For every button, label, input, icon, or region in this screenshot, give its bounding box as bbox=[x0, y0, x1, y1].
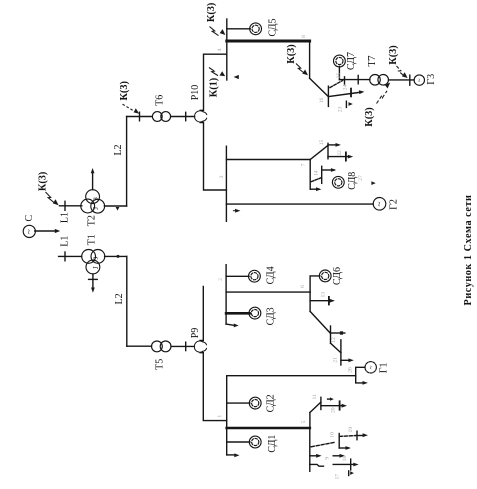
svg-text:Г2: Г2 bbox=[388, 199, 399, 210]
svg-text:18: 18 bbox=[342, 456, 348, 462]
svg-text:СД4: СД4 bbox=[266, 266, 277, 284]
svg-text:7: 7 bbox=[300, 163, 306, 166]
svg-text:2: 2 bbox=[218, 278, 224, 281]
svg-text:L2: L2 bbox=[113, 144, 124, 155]
svg-text:1: 1 bbox=[217, 415, 223, 418]
svg-text:~: ~ bbox=[416, 78, 424, 82]
svg-text:СД3: СД3 bbox=[266, 307, 277, 325]
svg-text:С: С bbox=[24, 214, 35, 221]
svg-text:25: 25 bbox=[336, 73, 342, 79]
svg-text:27: 27 bbox=[358, 175, 364, 181]
svg-text:Г3: Г3 bbox=[426, 74, 437, 85]
svg-text:14: 14 bbox=[314, 170, 320, 176]
svg-text:Т2: Т2 bbox=[87, 215, 98, 226]
svg-text:~: ~ bbox=[24, 229, 34, 234]
svg-text:СД8: СД8 bbox=[347, 172, 358, 190]
svg-text:Т7: Т7 bbox=[367, 55, 378, 66]
svg-text:23: 23 bbox=[338, 107, 344, 113]
svg-text:3: 3 bbox=[219, 175, 225, 178]
svg-text:L1: L1 bbox=[60, 236, 71, 247]
svg-text:J: J bbox=[92, 207, 100, 210]
svg-text:Т6: Т6 bbox=[155, 95, 166, 106]
svg-text:~: ~ bbox=[374, 201, 384, 206]
svg-text:Т1: Т1 bbox=[86, 234, 97, 245]
svg-text:L1: L1 bbox=[60, 212, 71, 223]
svg-text:17: 17 bbox=[335, 474, 341, 480]
svg-text:5: 5 bbox=[301, 420, 307, 423]
svg-text:21: 21 bbox=[333, 357, 339, 363]
svg-text:з: з bbox=[91, 257, 100, 260]
svg-text:К(3): К(3) bbox=[364, 107, 375, 126]
svg-text:22: 22 bbox=[337, 150, 343, 156]
svg-text:СД2: СД2 bbox=[266, 394, 277, 412]
svg-text:Рисунок 1 Схема сети: Рисунок 1 Схема сети bbox=[463, 195, 474, 306]
svg-text:СД5: СД5 bbox=[268, 19, 279, 37]
svg-text:СД6: СД6 bbox=[332, 267, 343, 285]
svg-text:Р10: Р10 bbox=[190, 85, 201, 101]
svg-text:К(3): К(3) bbox=[119, 81, 130, 100]
svg-text:24: 24 bbox=[343, 84, 349, 90]
svg-text:~: ~ bbox=[368, 365, 376, 369]
svg-text:К(3): К(3) bbox=[206, 3, 217, 22]
svg-text:К(3): К(3) bbox=[286, 44, 297, 63]
svg-text:СД7: СД7 bbox=[346, 52, 357, 70]
svg-text:16: 16 bbox=[319, 98, 325, 104]
svg-text:12: 12 bbox=[331, 337, 337, 343]
svg-text:К(3): К(3) bbox=[38, 172, 49, 191]
svg-text:L2: L2 bbox=[114, 293, 125, 304]
svg-text:8: 8 bbox=[301, 35, 307, 38]
svg-text:Т5: Т5 bbox=[155, 359, 166, 370]
svg-text:15: 15 bbox=[319, 140, 325, 146]
svg-text:13: 13 bbox=[321, 292, 327, 298]
svg-text:Р9: Р9 bbox=[190, 328, 201, 339]
svg-text:СД1: СД1 bbox=[267, 435, 278, 453]
svg-text:J: J bbox=[92, 266, 100, 269]
svg-text:К(1): К(1) bbox=[208, 78, 219, 97]
svg-text:10: 10 bbox=[329, 432, 335, 438]
svg-text:9: 9 bbox=[325, 457, 331, 460]
svg-text:19: 19 bbox=[348, 427, 354, 433]
svg-text:6: 6 bbox=[300, 285, 306, 288]
svg-text:11: 11 bbox=[312, 394, 318, 400]
svg-text:К(3): К(3) bbox=[388, 45, 399, 64]
svg-text:з: з bbox=[91, 197, 100, 200]
svg-text:26: 26 bbox=[348, 367, 354, 373]
svg-text:4: 4 bbox=[217, 48, 223, 51]
svg-text:Г1: Г1 bbox=[379, 363, 390, 374]
svg-text:20: 20 bbox=[331, 407, 337, 413]
